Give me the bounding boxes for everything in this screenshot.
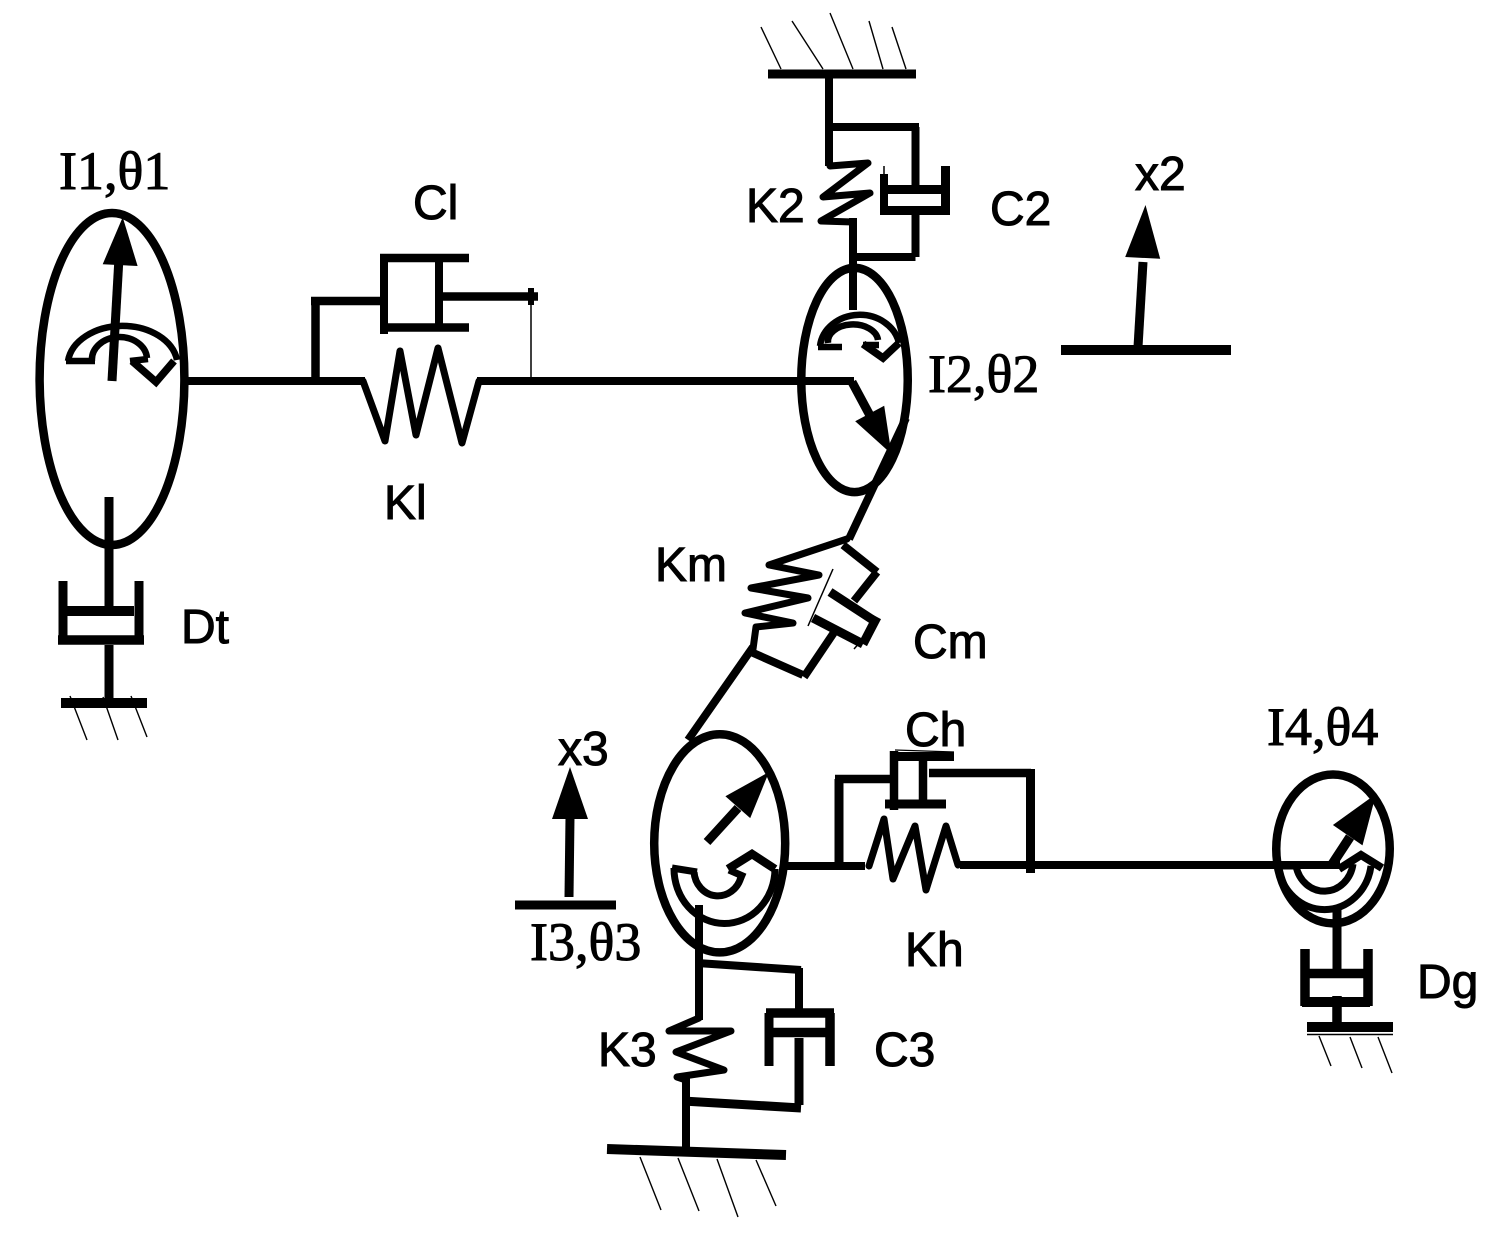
damper Dt bbox=[58, 581, 144, 641]
svg-text:Ch: Ch bbox=[905, 704, 966, 757]
angle arrow I3 bbox=[707, 772, 769, 842]
rotation arrow I4 bbox=[1276, 855, 1382, 910]
rotation arrow I1 bbox=[66, 326, 177, 382]
x3 marker bbox=[515, 767, 616, 905]
wire Kh to I4 bbox=[960, 861, 1340, 869]
ground at Dg bbox=[1307, 1027, 1393, 1073]
damper Cl bbox=[311, 257, 538, 385]
ground at Dt bbox=[61, 696, 147, 740]
ceiling at K2 bbox=[768, 70, 916, 79]
spring Kl bbox=[363, 348, 479, 443]
inertia disk I1 bbox=[40, 213, 185, 545]
wire jog to C3 cup bbox=[795, 968, 803, 1013]
inertia disk I4 bbox=[1276, 774, 1390, 923]
svg-text:x3: x3 bbox=[558, 723, 609, 776]
rotation arrow I3 bbox=[672, 854, 775, 924]
spring Kh bbox=[869, 819, 958, 890]
spring K2 bbox=[821, 163, 870, 222]
wire ceiling to K2 bbox=[825, 70, 833, 166]
ground at K3 bbox=[607, 1149, 786, 1217]
spring Km bbox=[745, 539, 847, 649]
svg-text:C2: C2 bbox=[990, 183, 1051, 236]
inertia disk I2 bbox=[801, 268, 908, 492]
svg-text:I3,θ3: I3,θ3 bbox=[530, 912, 641, 972]
svg-text:Dt: Dt bbox=[181, 601, 229, 654]
wire I1 to Dt bbox=[105, 497, 114, 611]
wire I4 to Dg bbox=[1333, 906, 1342, 976]
wire jog I3 to C3 bbox=[697, 963, 801, 970]
damper Ch bbox=[835, 750, 1031, 873]
svg-text:I1,θ1: I1,θ1 bbox=[59, 141, 170, 201]
svg-text:I4,θ4: I4,θ4 bbox=[1267, 697, 1378, 757]
wire K3 to ground bbox=[682, 1078, 690, 1150]
wire K2 to I2 bbox=[849, 218, 857, 310]
svg-text:Cm: Cm bbox=[913, 616, 988, 669]
svg-text:x2: x2 bbox=[1135, 148, 1186, 201]
damper C3 bbox=[766, 1013, 834, 1105]
svg-text:C3: C3 bbox=[874, 1024, 935, 1077]
wire I1 to Kl bbox=[186, 377, 365, 385]
svg-text:Cl: Cl bbox=[413, 177, 458, 230]
svg-text:Kh: Kh bbox=[905, 924, 964, 977]
svg-text:K2: K2 bbox=[746, 180, 805, 233]
angle arrow I4 bbox=[1331, 794, 1376, 866]
angle arrow I1 bbox=[103, 217, 138, 381]
wire I2 to Km bbox=[849, 418, 906, 539]
damper Cm bbox=[751, 545, 877, 677]
svg-text:Dg: Dg bbox=[1417, 956, 1478, 1009]
damper C2 bbox=[849, 127, 947, 257]
spring K3 bbox=[669, 1018, 731, 1080]
wire I3 to K3 bbox=[695, 905, 703, 1020]
ceiling hatches bbox=[761, 13, 906, 69]
svg-text:I2,θ2: I2,θ2 bbox=[928, 344, 1039, 404]
inertia disk I3 bbox=[654, 734, 785, 952]
wire jog K2 to C2 bbox=[825, 123, 919, 131]
x2 marker bbox=[1061, 205, 1231, 350]
svg-text:Km: Km bbox=[655, 539, 727, 592]
rotation arrow I2 bbox=[818, 315, 899, 358]
damper Dg bbox=[1302, 949, 1370, 1024]
svg-text:Kl: Kl bbox=[384, 477, 427, 530]
svg-text:K3: K3 bbox=[598, 1024, 657, 1077]
angle arrow I2 bbox=[852, 382, 892, 454]
wire Kl to I2 bbox=[477, 377, 854, 385]
wire I3 to Kh bbox=[785, 862, 865, 870]
wire Km to I3 bbox=[688, 647, 753, 740]
wire C3 jog bbox=[683, 1101, 801, 1108]
wire Dt to ground bbox=[105, 645, 114, 700]
